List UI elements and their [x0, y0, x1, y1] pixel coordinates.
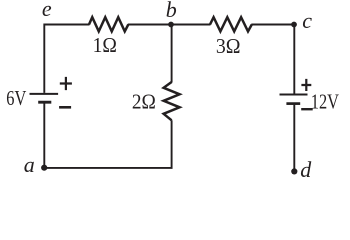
svg-text:c: c — [302, 8, 312, 33]
svg-text:e: e — [42, 0, 52, 21]
wire: top segment 3-ohm to node c — [251, 24, 294, 26]
battery B2 12V long plate (+) — [280, 94, 308, 96]
wire: 6V battery bottom to node a — [43, 103, 45, 168]
resistor R2 2-ohm vertical zigzag — [164, 82, 180, 120]
battery B1 6V short plate (-) — [38, 101, 51, 104]
node a junction dot — [41, 165, 47, 171]
node d junction dot — [291, 168, 297, 174]
plus sign of 12V battery — [301, 79, 311, 91]
svg-text:6V: 6V — [6, 86, 26, 110]
svg-text:1Ω: 1Ω — [93, 33, 117, 57]
battery B1 6V long plate (+) — [30, 93, 59, 95]
svg-text:2Ω: 2Ω — [132, 89, 156, 113]
wire: top segment e-corner to 1-ohm resistor — [44, 24, 89, 26]
minus sign of 12V battery — [301, 108, 313, 110]
wire: 12V battery bottom to node d — [293, 105, 295, 172]
resistor R1 1-ohm zigzag — [89, 17, 128, 31]
wire: top segment 1-ohm to node b to 3-ohm — [128, 24, 211, 26]
minus sign of 6V battery — [59, 106, 71, 109]
plus sign of 6V battery — [60, 77, 72, 90]
node b junction dot — [168, 22, 174, 28]
resistor R3 3-ohm zigzag — [210, 17, 252, 31]
svg-text:a: a — [24, 152, 35, 177]
wire: node b down to 2-ohm resistor — [171, 25, 173, 83]
svg-text:3Ω: 3Ω — [216, 34, 241, 58]
svg-text:b: b — [166, 0, 177, 22]
node c junction dot — [291, 22, 297, 28]
wire: node c down to 12V battery top plate — [293, 25, 295, 94]
wire: bottom from node a to 2-ohm branch — [44, 120, 171, 168]
svg-text:12V: 12V — [311, 89, 339, 113]
svg-text:d: d — [300, 157, 312, 182]
battery B2 12V short plate (-) — [286, 102, 300, 105]
wire: left branch (corner e down to 6V battery top plate) — [44, 25, 89, 93]
